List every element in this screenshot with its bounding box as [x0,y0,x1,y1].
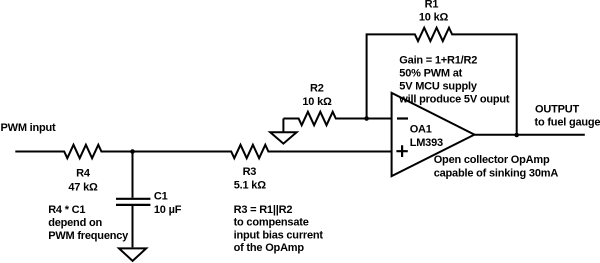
svg-text:5V MCU supply: 5V MCU supply [399,80,478,92]
svg-text:10 kΩ: 10 kΩ [419,12,449,24]
svg-text:to fuel gauge: to fuel gauge [535,117,600,129]
svg-text:capable of sinking 30mA: capable of sinking 30mA [434,167,559,179]
svg-text:will produce 5V ouput: will produce 5V ouput [398,93,510,105]
svg-text:10 µF: 10 µF [154,204,182,216]
svg-text:Gain = 1+R1/R2: Gain = 1+R1/R2 [399,55,477,67]
svg-text:47 kΩ: 47 kΩ [68,181,98,193]
svg-text:PWM input: PWM input [1,122,57,134]
svg-text:R3 = R1||R2: R3 = R1||R2 [234,204,293,216]
svg-text:R2: R2 [310,82,324,94]
svg-text:of the OpAmp: of the OpAmp [234,242,305,254]
svg-text:OA1: OA1 [410,123,432,135]
svg-text:50% PWM at: 50% PWM at [399,68,462,80]
svg-text:C1: C1 [154,191,168,203]
svg-text:PWM frequency: PWM frequency [48,230,129,242]
svg-text:input bias current: input bias current [234,229,324,241]
svg-text:5.1 kΩ: 5.1 kΩ [234,180,266,192]
svg-text:R4 * C1: R4 * C1 [48,204,85,216]
svg-text:10 kΩ: 10 kΩ [302,96,332,108]
svg-text:R3: R3 [243,166,257,178]
svg-text:OUTPUT: OUTPUT [535,104,580,116]
svg-text:R1: R1 [425,0,439,11]
svg-text:to compensate: to compensate [234,217,309,229]
svg-text:Open collector OpAmp: Open collector OpAmp [434,154,550,166]
svg-text:R4: R4 [76,168,91,180]
svg-text:depend on: depend on [48,217,102,229]
svg-text:LM393: LM393 [410,137,443,149]
